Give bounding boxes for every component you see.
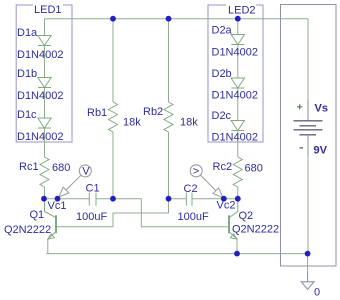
capacitor C2 bbox=[186, 193, 192, 206]
svg-text:D2b: D2b bbox=[212, 68, 232, 80]
wire: D2a cathode to D2b anode bbox=[237, 45, 239, 79]
diode D2c bbox=[231, 121, 244, 131]
box around LED1 diode group bbox=[16, 5, 72, 142]
svg-text:D1a: D1a bbox=[17, 27, 38, 39]
diode D1b bbox=[38, 78, 51, 88]
junction dot: Q2 emitter at bottom rail bbox=[234, 251, 240, 257]
svg-text:V: V bbox=[82, 165, 90, 177]
diode D1a bbox=[38, 36, 51, 46]
svg-text:C2: C2 bbox=[184, 183, 198, 195]
junction dot: C1 / Rb1 node bbox=[110, 196, 116, 202]
svg-text:D1N4002: D1N4002 bbox=[17, 49, 63, 61]
svg-text:Q2: Q2 bbox=[239, 210, 254, 222]
svg-text:100uF: 100uF bbox=[178, 211, 209, 223]
wire: battery - terminal down to bottom rail bbox=[307, 135, 309, 155]
wire: top supply rail bbox=[45, 18, 309, 20]
wire: Rb2 to node at C2 left bbox=[168, 132, 170, 199]
label LED2 bbox=[226, 1, 256, 17]
resistor Rc1 bbox=[40, 157, 49, 187]
junction dot: rail / LED2 anode bbox=[235, 16, 241, 22]
wire: LED2 cathode down to Rc2 bbox=[237, 131, 239, 158]
diode D2b bbox=[231, 78, 244, 88]
wire: rail down to battery + terminal bbox=[307, 19, 309, 100]
box around LED2 diode group bbox=[208, 5, 263, 142]
svg-text:LED2: LED2 bbox=[228, 5, 256, 17]
battery + polarity mark bbox=[297, 104, 302, 109]
svg-text:>: > bbox=[193, 165, 199, 177]
transistor Q1 bbox=[45, 199, 57, 254]
wire: Rb1 to node at C1 right bbox=[112, 132, 114, 199]
svg-text:18k: 18k bbox=[180, 117, 198, 129]
wire: Rc2 to node Vc2 bbox=[237, 187, 239, 199]
svg-text:18k: 18k bbox=[123, 117, 141, 129]
wire: emitter ground bottom rail bbox=[46, 253, 307, 255]
svg-text:D1N4002: D1N4002 bbox=[212, 90, 258, 102]
wire: Rc1 to node Vc1 bbox=[44, 187, 46, 199]
wire: Rb2 node to C2 left plate bbox=[169, 198, 187, 200]
svg-text:C1: C1 bbox=[86, 183, 100, 195]
battery - polarity mark bbox=[300, 147, 304, 149]
svg-text:Rc2: Rc2 bbox=[213, 161, 233, 173]
svg-text:Vc1: Vc1 bbox=[48, 200, 67, 212]
diode D1c bbox=[38, 118, 51, 128]
svg-text:Q2N2222: Q2N2222 bbox=[232, 224, 279, 236]
svg-text:Vs: Vs bbox=[315, 103, 328, 115]
svg-text:Rc1: Rc1 bbox=[19, 161, 39, 173]
svg-text:D1c: D1c bbox=[17, 109, 37, 121]
transistor Q2 bbox=[229, 199, 238, 254]
wire: D1b cathode to D1c anode bbox=[44, 88, 46, 119]
capacitor C1 bbox=[89, 193, 96, 206]
junction dot: node Vc1 at Rc1/Q1 collector bbox=[41, 196, 47, 202]
wire: D1a cathode to D1b anode bbox=[44, 46, 46, 78]
wire: C2 right plate to node Vc2 bbox=[192, 198, 238, 200]
probe marker V at node Vc1 bbox=[59, 165, 92, 197]
wire: bottom rail to ground symbol bbox=[307, 254, 309, 272]
svg-text:100uF: 100uF bbox=[76, 211, 107, 223]
svg-text:Rb1: Rb1 bbox=[87, 107, 107, 119]
junction dot: rail / Rb1 bbox=[110, 16, 116, 22]
box around voltage source Vs bbox=[281, 5, 337, 267]
ground 0 symbol bbox=[301, 282, 314, 290]
probe marker > at node Vc2 bbox=[190, 165, 223, 198]
wire: rail down to Rb1 bbox=[112, 19, 114, 102]
svg-text:680: 680 bbox=[52, 162, 70, 174]
wire: LED1 cathode down to Rc1 bbox=[44, 128, 46, 157]
svg-text:D1N4002: D1N4002 bbox=[212, 132, 258, 144]
wire: LED2 anode up to rail bbox=[237, 19, 239, 35]
junction dot: C2 / Rb2 node bbox=[166, 196, 172, 202]
svg-text:Q2N2222: Q2N2222 bbox=[4, 224, 51, 236]
junction dot: node Vc1 probe attach bbox=[55, 196, 61, 202]
resistor Rb1 bbox=[109, 102, 118, 132]
junction dot: battery minus at bottom rail bbox=[305, 251, 311, 257]
wire: LED1 anode up to rail bbox=[44, 19, 46, 36]
svg-text:680: 680 bbox=[245, 163, 263, 175]
svg-text:D1N4002: D1N4002 bbox=[17, 90, 63, 102]
junction dot: rail / Rb2 bbox=[166, 16, 172, 22]
junction dot: node Vc2 at Rc2/Q2 collector bbox=[235, 196, 241, 202]
svg-text:D1N4002: D1N4002 bbox=[212, 47, 258, 59]
battery Vs plates bbox=[294, 121, 323, 135]
resistor Rc2 bbox=[233, 157, 242, 187]
diode D2a bbox=[231, 35, 244, 45]
junction dot: node Vc2 probe attach bbox=[221, 196, 227, 202]
svg-text:0: 0 bbox=[314, 287, 320, 299]
svg-text:D1b: D1b bbox=[17, 68, 37, 80]
svg-text:Q1: Q1 bbox=[30, 209, 45, 221]
wire: C1 right plate to Rb1 node bbox=[96, 198, 113, 200]
wire: rail down to Rb2 bbox=[168, 19, 170, 102]
resistor Rb2 bbox=[164, 102, 173, 132]
wire: cross-couple C1/Rb1 node to Q2 base bbox=[113, 199, 229, 227]
svg-text:D2c: D2c bbox=[212, 110, 232, 122]
svg-text:Vc2: Vc2 bbox=[217, 200, 236, 212]
svg-text:9V: 9V bbox=[314, 145, 328, 157]
svg-text:D2a: D2a bbox=[212, 25, 233, 37]
wire: cross-couple C2/Rb2 node to Q1 base bbox=[56, 199, 169, 227]
svg-text:LED1: LED1 bbox=[34, 4, 62, 16]
svg-text:D1N4002: D1N4002 bbox=[17, 131, 63, 143]
label LED1 bbox=[33, 1, 63, 16]
wire: node Vc1 to C1 left plate bbox=[44, 198, 89, 200]
svg-text:Rb2: Rb2 bbox=[143, 106, 163, 118]
wire: D2b cathode to D2c anode bbox=[237, 88, 239, 121]
